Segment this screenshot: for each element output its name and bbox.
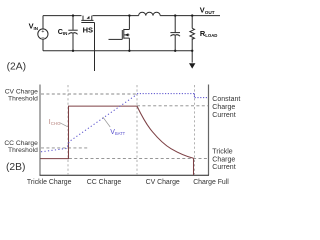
svg-text:Charge: Charge — [212, 156, 235, 163]
svg-text:Constant: Constant — [212, 96, 240, 103]
svg-text:ICHG: ICHG — [49, 119, 61, 126]
svg-text:CV Charge: CV Charge — [146, 179, 180, 186]
svg-text:–: – — [41, 35, 44, 41]
svg-text:Current: Current — [212, 112, 235, 119]
svg-text:(2A): (2A) — [7, 61, 26, 72]
svg-text:Charge Full: Charge Full — [193, 179, 229, 186]
svg-text:(2B): (2B) — [6, 162, 25, 173]
svg-text:Trickle Charge: Trickle Charge — [27, 179, 72, 186]
svg-text:HS: HS — [83, 26, 93, 35]
svg-text:CC Charge: CC Charge — [4, 140, 38, 147]
svg-text:Threshold: Threshold — [8, 96, 38, 103]
svg-text:CIN: CIN — [58, 27, 68, 36]
svg-text:VIN: VIN — [29, 22, 38, 31]
svg-text:VBATT: VBATT — [110, 129, 125, 136]
svg-text:CC Charge: CC Charge — [87, 179, 122, 186]
svg-text:Charge: Charge — [212, 104, 235, 111]
svg-text:Threshold: Threshold — [8, 147, 38, 154]
svg-text:+: + — [41, 29, 44, 35]
svg-text:RLOAD: RLOAD — [200, 29, 218, 38]
svg-text:Current: Current — [212, 164, 235, 171]
svg-text:Trickle: Trickle — [212, 148, 232, 155]
svg-text:CV Charge: CV Charge — [5, 88, 38, 95]
svg-text:VOUT: VOUT — [200, 6, 215, 15]
